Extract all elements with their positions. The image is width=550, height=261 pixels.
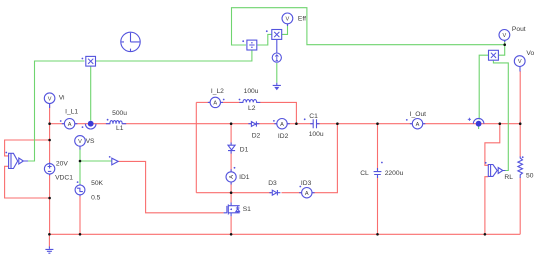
svg-text:VDC1: VDC1 <box>55 175 73 182</box>
svg-text:A: A <box>229 175 235 179</box>
voltage probe Eff <box>282 13 293 26</box>
clock time block <box>121 32 140 51</box>
current sensor ISEN1 <box>85 121 96 129</box>
node VSEN1 plus <box>48 139 51 142</box>
wire crossing vertical (L2 branch to switch node) <box>195 102 197 192</box>
svg-text:A: A <box>305 191 309 197</box>
wire VTRI bottom <box>79 196 81 234</box>
polarity marker C1 <box>304 118 306 120</box>
ground (control) <box>273 83 281 90</box>
voltage sensor VSEN2 <box>488 165 505 177</box>
wire Vo stub lower <box>519 71 521 124</box>
node Pout <box>503 43 506 46</box>
svg-text:Vo: Vo <box>526 50 534 57</box>
svg-text:V: V <box>503 33 507 39</box>
ammeter I_Out <box>410 119 425 129</box>
svg-text:A: A <box>68 122 72 128</box>
wire CL column lower <box>377 176 379 234</box>
svg-text:V: V <box>286 17 290 23</box>
wire constant source to ground <box>276 63 278 83</box>
capacitor CL <box>374 168 382 178</box>
polarity marker VTRI <box>77 181 79 183</box>
voltage sensor VSEN1 <box>9 153 28 168</box>
svg-text:Eff: Eff <box>298 15 306 22</box>
polarity marker ISEN2 <box>468 118 471 121</box>
svg-text:D2: D2 <box>252 132 261 139</box>
polarity marker VSEN2 <box>485 162 487 164</box>
node L2 right <box>295 122 298 125</box>
multiplier U2 <box>272 30 282 40</box>
wire left column lower (VDC1 to bottom rail) <box>49 174 51 234</box>
svg-text:A: A <box>280 122 284 128</box>
wire bottom branch left <box>196 192 271 194</box>
wire multiplier U2 output to Eff probe <box>282 24 288 34</box>
svg-text:D3: D3 <box>268 180 277 187</box>
svg-text:S1: S1 <box>243 206 251 213</box>
voltage probe VS <box>75 136 86 150</box>
wire VSEN2 minus input <box>485 177 488 235</box>
svg-text:500u: 500u <box>112 110 127 117</box>
wire VSEN2 plus input <box>485 124 500 166</box>
svg-text:RL: RL <box>504 174 513 181</box>
svg-text:I_L1: I_L1 <box>65 108 78 115</box>
svg-text:V: V <box>518 59 522 65</box>
svg-text:C1: C1 <box>309 113 318 120</box>
wire left column upper (Vi node to VDC1) <box>49 104 51 163</box>
wire bottom rail <box>49 233 520 235</box>
wire ground stub left <box>48 234 50 246</box>
wire multiplier U1 output to divider <box>96 50 252 61</box>
node VS gating <box>79 160 82 163</box>
svg-text:I_Out: I_Out <box>410 111 426 118</box>
current sensor ISEN2 <box>473 118 484 126</box>
triangular wave source VTRI <box>75 184 85 196</box>
polarity marker I_L2 <box>223 99 225 101</box>
svg-text:L2: L2 <box>248 105 256 112</box>
polarity marker L1 <box>107 119 109 121</box>
wire main rail segment D <box>257 123 277 125</box>
MOSFET S1 <box>224 203 240 217</box>
polarity marker ID1 <box>234 167 236 169</box>
wire ISEN2 lower stub <box>478 127 480 130</box>
svg-text:2200u: 2200u <box>385 170 404 177</box>
wire D1 column middle <box>230 152 232 172</box>
node VSEN2 minus bottom <box>484 233 487 236</box>
node S1 source <box>230 233 233 236</box>
polarity marker U1 <box>82 58 84 60</box>
capacitor C1 <box>310 119 319 128</box>
svg-text:20V: 20V <box>56 160 68 167</box>
wire VSEN1 output to multiplier U1 <box>28 61 85 161</box>
svg-text:100u: 100u <box>244 88 259 95</box>
constant source K1 <box>272 40 281 63</box>
ammeter ID3 <box>299 188 314 198</box>
wire VSEN1 minus input <box>5 166 50 198</box>
voltage source VDC1 <box>44 163 54 176</box>
wire RL upper <box>519 124 521 157</box>
svg-text:ID2: ID2 <box>278 133 289 140</box>
wire VSEN1 plus input <box>5 140 50 156</box>
svg-text:Vi: Vi <box>59 95 65 102</box>
wire Pout probe stub <box>504 41 506 45</box>
wire CL column upper <box>377 124 379 170</box>
wire top branch left <box>196 101 210 103</box>
wire S1 source <box>230 216 232 234</box>
svg-text:Pout: Pout <box>512 26 526 33</box>
voltage probe Vo <box>514 56 525 72</box>
polarity marker ISEN1 <box>82 126 84 128</box>
wire main rail segment C <box>122 123 251 125</box>
inductor L1 <box>106 121 126 124</box>
polarity marker L2 <box>239 99 241 101</box>
wire VS node vertical <box>79 149 81 185</box>
wire top branch right <box>260 102 297 123</box>
svg-text:V: V <box>78 139 82 145</box>
node VSEN2 plus top <box>499 122 502 125</box>
ammeter I_L1 <box>62 119 78 129</box>
polarity marker RL <box>522 156 524 158</box>
svg-text:50K: 50K <box>91 180 103 187</box>
wire main rail segment B <box>75 123 110 125</box>
wire bottom branch middle <box>282 192 302 194</box>
node switch <box>230 191 233 194</box>
svg-text:CL: CL <box>360 170 369 177</box>
node main rail / left column <box>48 122 51 125</box>
svg-text:ID1: ID1 <box>239 174 250 181</box>
wire main rail segment A <box>50 123 65 125</box>
wire gate drive <box>118 161 223 212</box>
ammeter I_L2 <box>208 97 223 107</box>
node Vo RL <box>519 122 522 125</box>
polarity marker I_L1 <box>60 120 62 122</box>
wire top branch middle <box>220 101 240 103</box>
wire RL lower <box>519 178 521 235</box>
wire multiplier U3 output <box>499 45 505 56</box>
svg-text:A: A <box>213 101 217 107</box>
diode D2 <box>248 121 259 126</box>
wire multiplier U3 current input from VSEN2 <box>493 61 508 171</box>
node D3 return <box>336 122 339 125</box>
node bottom left ground <box>48 233 51 236</box>
multiplier U3 <box>489 50 499 60</box>
node VTRI bottom <box>79 233 82 236</box>
polarity marker VSEN1 <box>5 152 7 154</box>
polarity marker CL <box>381 162 383 164</box>
wire divider output to multiplier U2 <box>257 34 271 45</box>
svg-text:V: V <box>48 96 52 102</box>
svg-text:0.5: 0.5 <box>91 194 101 201</box>
svg-text:L1: L1 <box>116 125 124 132</box>
diode D1 <box>228 143 235 154</box>
voltage probe Vi <box>44 93 55 108</box>
wire VS node to gating block <box>80 160 112 162</box>
node VSEN1 minus <box>48 197 51 200</box>
ammeter ID1 <box>226 169 236 184</box>
wire main rail segment G <box>423 123 521 125</box>
ammeter ID2 <box>274 119 289 129</box>
wire bottom branch right <box>312 124 338 193</box>
node CL bottom <box>376 233 379 236</box>
node CL top <box>376 122 379 125</box>
wire S1 drain <box>230 193 232 203</box>
svg-text:D1: D1 <box>240 146 249 153</box>
voltage probe Pout <box>499 30 510 42</box>
polarity marker divider <box>242 40 244 42</box>
wire main rail segment F <box>317 123 413 125</box>
wire D1 column lower <box>230 182 232 193</box>
wire multiplier U3 voltage input from ISEN2 <box>479 55 488 119</box>
polarity marker gating block <box>109 156 111 158</box>
multiplier U1 <box>86 56 96 66</box>
polarity marker I_Out <box>406 119 408 121</box>
wire D1 column upper <box>230 124 232 144</box>
svg-text:VS: VS <box>86 138 95 145</box>
wire multiplier U1 current input <box>90 66 92 120</box>
svg-text:ID3: ID3 <box>301 180 312 187</box>
svg-text:I_L2: I_L2 <box>211 88 224 95</box>
wire efficiency top loop <box>232 8 505 45</box>
svg-text:100u: 100u <box>309 131 324 138</box>
on-off gating block <box>112 158 118 165</box>
polarity marker U2 <box>266 30 268 32</box>
polarity marker ID3 <box>299 186 301 188</box>
inductor L2 <box>239 100 260 103</box>
resistor RL <box>518 157 523 179</box>
node D1 top <box>230 122 233 125</box>
polarity marker ID2 <box>273 120 275 122</box>
divider U4 <box>247 40 257 50</box>
wire main rail segment E <box>287 123 313 125</box>
svg-text:A: A <box>416 122 420 128</box>
svg-text:50: 50 <box>526 172 534 179</box>
diode D3 <box>269 190 280 195</box>
ground (main) <box>45 246 53 253</box>
